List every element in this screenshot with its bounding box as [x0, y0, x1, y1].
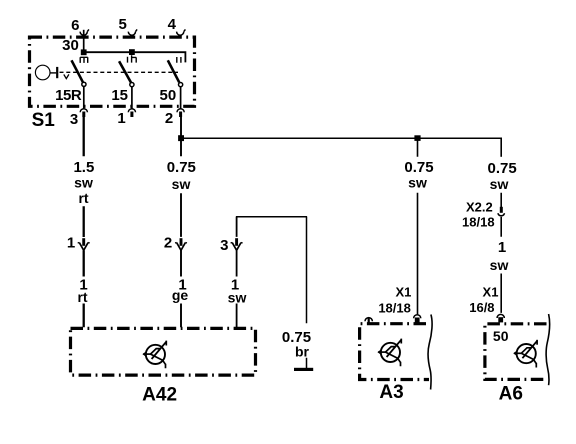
switch arm 1 pivot circle [82, 82, 86, 86]
A6 label [499, 384, 523, 405]
wire label 0.75 [167, 159, 196, 176]
svg-text:A3: A3 [379, 382, 403, 403]
mechanical coupling circle (key) [35, 65, 50, 80]
svg-text:5: 5 [119, 16, 127, 33]
svg-text:sw: sw [172, 176, 191, 192]
ground wire label br [295, 344, 310, 360]
switch arm 1 [72, 60, 83, 82]
connector 3 above A42 [231, 238, 243, 250]
switch arm 3 pivot circle [179, 83, 183, 87]
wire gauge 1 sw labels [231, 276, 239, 293]
svg-text:X2.2: X2.2 [466, 199, 493, 214]
pin 2 socket [177, 109, 184, 117]
svg-text:18/18: 18/18 [378, 301, 411, 316]
wire gauge 1 label (A6 branch) [498, 239, 506, 256]
pin 1 number [117, 110, 125, 127]
contact mark m (switch 1) [80, 57, 88, 63]
wire down to A6 [500, 193, 502, 313]
connector X1 pin label 16/8 (A6) [469, 300, 494, 315]
svg-text:0.75: 0.75 [167, 159, 196, 176]
wire label rt [78, 190, 88, 206]
wire label sw [172, 176, 191, 192]
pin 6 socket [80, 29, 89, 35]
contact mark (switch 3) [177, 57, 181, 63]
switch arm 3 [168, 60, 179, 82]
wire colour sw label (A6 branch) [490, 257, 509, 273]
wire gauge 1 rt labels [79, 276, 87, 293]
svg-text:1: 1 [498, 239, 506, 256]
wire label sw (A3 branch) [408, 175, 427, 191]
main horizontal wire to right [181, 138, 501, 157]
A3 label [379, 382, 403, 403]
switch arm 2 pivot circle [130, 83, 134, 87]
connector 2 above A42 [175, 238, 187, 250]
pin 2 number [165, 110, 173, 127]
connector X2.2 label [466, 199, 493, 214]
horn symbol A42 [142, 341, 166, 369]
svg-text:30: 30 [62, 37, 79, 54]
A42 label [142, 384, 177, 405]
wire label 0.75 (A6 branch) [487, 160, 516, 177]
terminal 6 label [71, 17, 79, 34]
svg-text:ge: ge [172, 287, 189, 303]
svg-text:15: 15 [111, 87, 128, 104]
wire label 0.75 (A3 branch) [404, 159, 433, 176]
svg-text:A42: A42 [142, 384, 177, 405]
pin 1 socket [128, 109, 135, 117]
wire pin2 down to junction and below (0.75 sw) [180, 117, 182, 327]
wire label sw (A6 branch) [490, 176, 509, 192]
svg-text:4: 4 [168, 16, 177, 33]
svg-text:A6: A6 [499, 384, 523, 405]
svg-text:2: 2 [165, 110, 173, 127]
svg-text:1.5: 1.5 [73, 159, 94, 176]
svg-text:50: 50 [493, 328, 509, 344]
svg-text:16/8: 16/8 [469, 300, 494, 315]
connector 1 number [67, 234, 75, 251]
terminal 15R label [55, 87, 82, 104]
wire switch1 to pin 3 [83, 86, 85, 108]
svg-text:1: 1 [117, 110, 125, 127]
svg-text:50: 50 [160, 87, 177, 104]
terminal 15 label [111, 87, 128, 104]
A6 terminal 50 label [493, 328, 509, 344]
connector X1 label (A3) [395, 284, 411, 299]
svg-text:sw: sw [408, 175, 427, 191]
wire switch3 to pin 2 [180, 87, 182, 109]
connector X1 pin label 18/18 (A3) [378, 301, 411, 316]
svg-text:3: 3 [70, 111, 78, 128]
terminal 5 label [119, 16, 127, 33]
ground symbol [294, 368, 313, 371]
ground wire label 0.75 [282, 329, 311, 346]
connector X2.2 pin label 18/18 [462, 214, 495, 229]
junction dot main [178, 135, 184, 141]
switch arm 2 [119, 61, 131, 82]
svg-text:0.75: 0.75 [487, 160, 516, 177]
wire gauge 1 ge labels [178, 276, 186, 293]
horn symbol A3 [377, 339, 401, 367]
svg-text:rt: rt [77, 289, 87, 305]
svg-text:3: 3 [220, 237, 228, 254]
A3 torn edge [428, 315, 432, 390]
A6 wire socket X1 [497, 314, 504, 322]
bus wire 30 [84, 52, 186, 62]
coupling link [50, 67, 57, 78]
pin 3 socket [80, 109, 87, 117]
svg-text:sw: sw [228, 290, 247, 306]
connector X1 label (A6) [483, 285, 499, 300]
connector 1 above A42 [78, 238, 90, 250]
wire from pin 6 to bus [83, 30, 85, 52]
wire label 1.5 [73, 159, 94, 176]
connector 3 number [220, 237, 228, 254]
wire pin3 down (1.5 sw rt) [83, 117, 85, 327]
terminal 4 label [168, 16, 177, 33]
S1 label [32, 110, 56, 131]
pin 5 socket [128, 29, 137, 35]
svg-text:2: 2 [164, 234, 172, 251]
horn symbol A6 [513, 340, 537, 368]
svg-text:18/18: 18/18 [462, 214, 495, 229]
A6 box [485, 324, 547, 380]
wire switch2 to pin 1 [131, 87, 133, 109]
svg-text:br: br [295, 344, 310, 360]
junction dot at A3 branch [414, 135, 420, 141]
svg-text:15R: 15R [55, 87, 82, 104]
svg-text:1: 1 [67, 234, 75, 251]
junction dot pin6/bus [81, 49, 87, 55]
A3 box [360, 324, 429, 380]
A6 torn edge [546, 314, 550, 385]
svg-text:sw: sw [74, 175, 93, 191]
ignition switch S1 box [30, 37, 195, 106]
wire label sw [74, 175, 93, 191]
svg-text:X1: X1 [483, 285, 499, 300]
terminal 50 label [160, 87, 177, 104]
branch wire to ground [236, 216, 307, 218]
svg-text:sw: sw [490, 176, 509, 192]
pin 4 socket [177, 29, 186, 35]
A3 empty socket [365, 318, 372, 324]
A3 wire socket X1 [414, 315, 421, 323]
svg-text:0.75: 0.75 [404, 159, 433, 176]
coupling arrow [64, 74, 69, 78]
svg-text:X1: X1 [395, 284, 411, 299]
terminal 30 label [62, 37, 79, 54]
ground wire vertical [306, 217, 308, 369]
contact mark n (switch 2) [128, 55, 137, 62]
A42 box [71, 328, 256, 375]
mechanical coupling dashed line [60, 71, 179, 73]
junction dot bus/switch2 [129, 49, 135, 55]
pin 3 number [70, 111, 78, 128]
wire down to A3 [417, 140, 419, 314]
svg-text:S1: S1 [32, 110, 56, 131]
connector X2.2 symbol [498, 207, 505, 216]
svg-text:sw: sw [490, 257, 509, 273]
svg-text:rt: rt [78, 190, 88, 206]
svg-text:6: 6 [71, 17, 79, 34]
connector 2 number [164, 234, 172, 251]
